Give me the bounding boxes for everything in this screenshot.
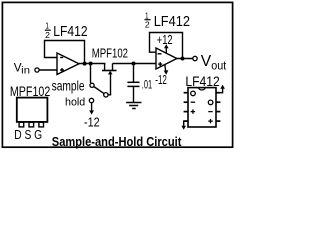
wire JFET drain rail to U1b noninverting input [113,63,157,65]
svg-text:sample: sample [52,78,85,93]
wire U1b feedback loop [150,33,183,59]
svg-text:out: out [211,59,227,73]
svg-text:LF412: LF412 [53,23,87,40]
wire node to sample contact [90,64,92,84]
node junction U1b output/feedback [181,57,185,61]
svg-text:-12: -12 [84,116,100,130]
switch contact: sample [90,83,94,87]
wire U1a feedback loop [45,41,85,64]
IC U1 LF412 DIP-8 pinout [184,88,221,127]
svg-text:+12: +12 [157,32,173,47]
label Vout [201,53,227,73]
svg-text:2: 2 [45,30,50,40]
IC pin symbols: out A, inA-, inA+, out B, inB-, inB+ [191,91,213,123]
wire U1b output [177,58,193,60]
svg-text:MPF102: MPF102 [92,45,128,60]
wire capacitor to ground [133,87,135,103]
op-amp U1b (1/2 LF412) [156,48,177,69]
node junction sample tap [89,62,93,66]
svg-text:V: V [201,53,212,70]
supply V- arrow (IC pin 4) [181,121,188,130]
supply +12 arrow (U1b V+) [164,44,169,53]
op-amp U1a (1/2 LF412 buffer) [57,53,79,75]
wire Vin to U1a noninverting input [39,69,57,71]
svg-text:LF412: LF412 [185,73,220,89]
switch contact: hold [89,98,93,102]
svg-text:Sample-and-Hold Circuit: Sample-and-Hold Circuit [52,134,182,149]
svg-text:LF412: LF412 [154,13,190,30]
svg-text:in: in [21,66,30,77]
supply -12 arrow (U1b V-) [164,65,169,75]
switch arm [94,87,104,94]
label Vin [14,62,30,77]
wire switch pole to JFET gate [108,94,111,96]
switch pole contact [104,93,108,97]
output terminal Vout [193,56,197,60]
svg-text:.01: .01 [142,77,152,91]
svg-text:-12: -12 [155,73,167,87]
wire node to capacitor [133,64,135,83]
svg-text:2: 2 [145,19,150,29]
wire U1a output rail to JFET source [79,63,105,65]
MPF102 package outline [17,98,48,127]
svg-text:D S G: D S G [14,128,42,142]
ground [126,103,141,109]
label 1/2 LF412 (right) [145,10,191,30]
svg-text:MPF102: MPF102 [10,84,50,99]
transistor Q1 MPF102 (n-JFET) [102,64,117,95]
supply V+ arrow (IC pin 8) [216,85,225,93]
svg-text:hold: hold [65,96,85,108]
supply -12 arrow (hold contact) [89,103,94,115]
node junction hold capacitor tap [132,62,136,66]
node junction feedback/output [83,62,87,66]
input terminal Vin [35,68,39,72]
label 1/2 LF412 (left) [45,21,88,40]
capacitor C1 [127,82,139,86]
